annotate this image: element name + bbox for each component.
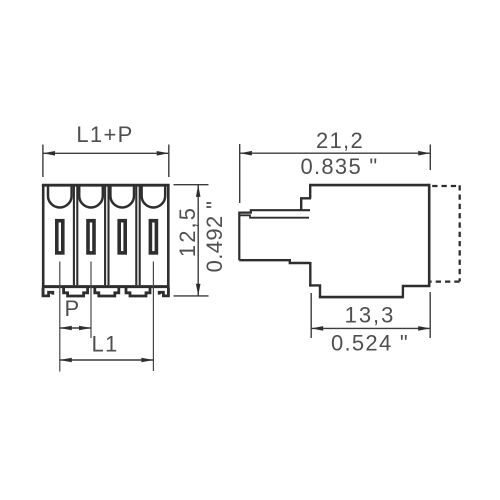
dimension 21,2 extension lines — [240, 144, 431, 203]
side body top edge — [309, 184, 430, 187]
svg-text:21,2: 21,2 — [316, 128, 364, 153]
dome pole 4 — [142, 187, 166, 208]
connector body right edge — [167, 184, 170, 296]
connector body bottom edge — [42, 285, 170, 288]
svg-text:L1: L1 — [91, 332, 118, 357]
connector body top edge — [42, 184, 170, 187]
slot pole 4 — [150, 221, 156, 253]
dimension L1+P line — [43, 152, 169, 154]
divider wall 2 — [105, 187, 108, 286]
dimension 13,3 extension lines — [311, 292, 430, 338]
side bottom right step — [403, 286, 431, 297]
nose bottom — [239, 260, 310, 263]
divider wall 1 — [74, 187, 77, 286]
dimension 12,5 extension lines — [174, 185, 209, 296]
dimension L1 line — [60, 359, 154, 361]
dimension L1 arrows — [60, 358, 154, 363]
side body left edge upper — [309, 184, 311, 199]
leader extension line pole 1 — [59, 262, 61, 372]
foot bucket 3 — [126, 288, 150, 296]
svg-text:0.492 ": 0.492 " — [202, 201, 227, 273]
dimension 13,3 line — [311, 327, 430, 329]
connector body left edge — [42, 184, 45, 296]
dome pole 1 — [48, 187, 72, 208]
dimension L1+P extension lines — [43, 145, 169, 178]
svg-text:12,5: 12,5 — [175, 206, 200, 257]
dome pole 3 — [110, 187, 134, 208]
dimension 13,3 arrows — [311, 326, 430, 331]
dimension 12,5 line — [197, 185, 199, 296]
svg-text:0.835 ": 0.835 " — [300, 154, 378, 179]
side body left edge lower — [309, 262, 311, 287]
leader extension line pole 2 — [90, 262, 92, 339]
foot hook left end — [43, 288, 53, 296]
svg-text:13,3: 13,3 — [345, 303, 396, 328]
dimension 21,2 line — [240, 152, 430, 154]
side bottom tab edge — [319, 296, 404, 299]
foot hook right end — [159, 288, 168, 296]
dimension 12,5 arrows — [196, 185, 201, 296]
side body step bump — [301, 198, 311, 211]
dome pole 2 — [79, 187, 103, 208]
side body right edge — [428, 184, 431, 286]
svg-text:P: P — [65, 296, 81, 321]
svg-text:L1+P: L1+P — [76, 122, 133, 147]
dimension L1+P arrows — [43, 151, 169, 156]
side bottom left step — [309, 285, 320, 297]
dimension P line — [60, 327, 91, 329]
nose top outer — [239, 210, 310, 212]
foot bucket 2 — [95, 288, 119, 296]
dimension 21,2 arrows — [240, 151, 430, 156]
nose tip left edge — [238, 212, 240, 261]
slot pole 2 — [88, 221, 94, 253]
foot bucket 1 — [64, 288, 88, 296]
dashed mating outline — [431, 185, 460, 281]
slot pole 3 — [119, 221, 125, 253]
dimension P arrows — [60, 326, 91, 331]
divider wall 3 — [136, 187, 139, 286]
nose inner top line — [240, 215, 309, 217]
leader extension line pole 4 — [152, 262, 154, 372]
slot pole 1 — [57, 221, 63, 253]
svg-text:0.524 ": 0.524 " — [331, 331, 409, 356]
